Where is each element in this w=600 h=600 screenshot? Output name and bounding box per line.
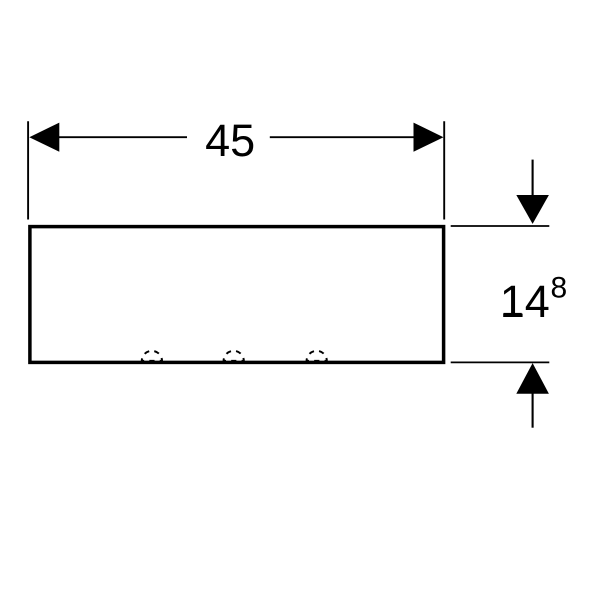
extension line left (width dim)	[27, 121, 29, 219]
dimension line 45 right segment	[270, 136, 414, 138]
arrow stem bottom (height dim)	[532, 393, 534, 428]
dimension line 45 left segment	[59, 136, 187, 138]
product outline rectangle	[30, 227, 444, 363]
arrowhead right (points right)	[414, 123, 444, 152]
arrowhead up	[516, 363, 549, 394]
dashed semicircle detail 1	[142, 351, 162, 361]
dashed semicircle detail 3	[307, 351, 327, 361]
extension line bottom (height dim)	[451, 361, 550, 363]
arrow stem top (height dim)	[532, 160, 534, 196]
extension line right (width dim)	[443, 121, 445, 219]
label 1 foot serif	[504, 313, 522, 316]
svg-text:45: 45	[205, 115, 255, 166]
arrowhead left (points left)	[29, 123, 59, 152]
arrowhead down	[516, 195, 549, 224]
svg-text:8: 8	[551, 271, 568, 304]
extension line top (height dim)	[451, 225, 550, 227]
svg-text:14: 14	[500, 276, 550, 327]
dashed semicircle detail 2	[224, 351, 244, 361]
